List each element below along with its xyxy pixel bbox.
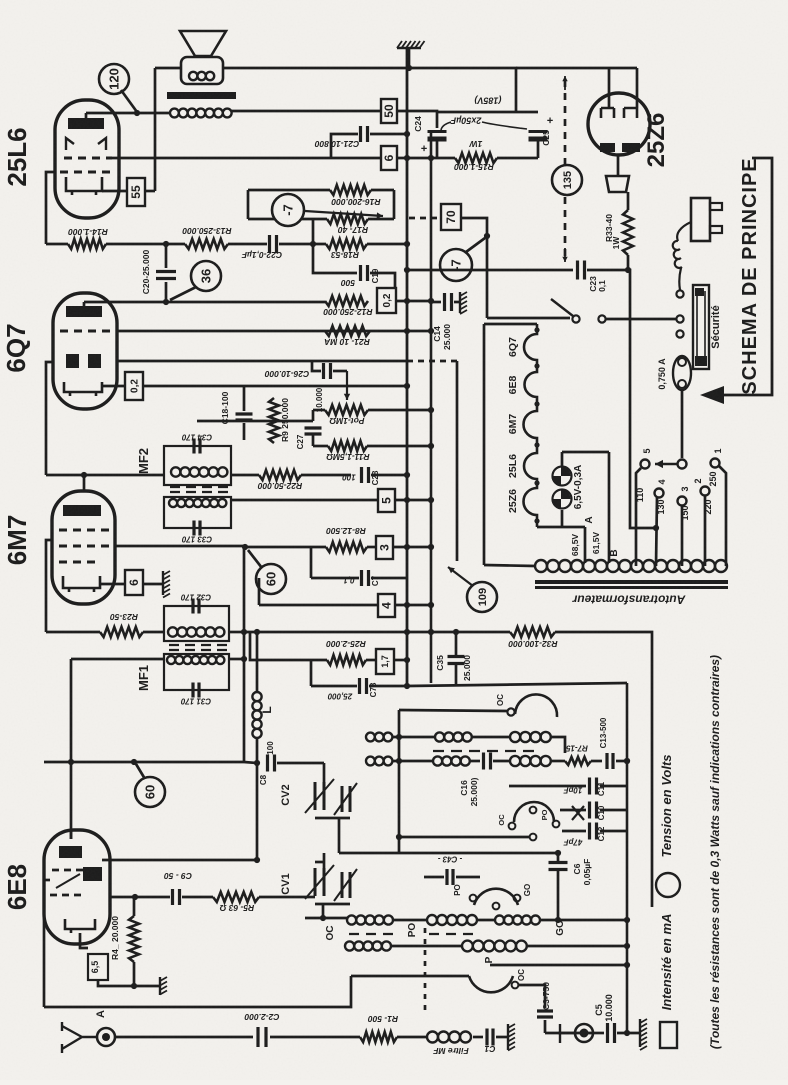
wire top rail right [516, 67, 637, 70]
resistor R21-10MA [325, 326, 370, 336]
tube 6M7 grid dashes a [59, 529, 109, 532]
svg-text:R13-250.000: R13-250.000 [182, 226, 231, 236]
svg-text:C25: C25 [541, 130, 551, 146]
ground (6E8 cathode) [160, 977, 167, 995]
wire speaker rail left [155, 67, 181, 70]
wire C78 branch [310, 660, 313, 686]
wire output return vertical [154, 68, 157, 191]
band switch arc (lower) [469, 976, 513, 992]
resistor R11-1.5MA [328, 441, 367, 451]
resistor R7-15 [565, 757, 591, 765]
wire C35 bottom [455, 663, 458, 684]
tap 150 contact [678, 497, 687, 506]
tap 220 contact [701, 487, 710, 496]
wire detector B line [244, 631, 510, 634]
junction [625, 267, 631, 273]
mains plug prong 2 [710, 226, 722, 233]
svg-text:C8: C8 [259, 774, 268, 785]
wire to R14 [46, 243, 68, 246]
svg-text:C22-0,1µF: C22-0,1µF [241, 250, 282, 260]
svg-text:6M7: 6M7 [507, 414, 519, 435]
junction [428, 407, 434, 413]
wire 6E8 top cap [70, 830, 73, 839]
switch contact OC low [512, 982, 519, 989]
junction [404, 544, 410, 550]
osc contact grid [530, 834, 537, 841]
current callout 4 [378, 594, 395, 617]
svg-text:2x50µF: 2x50µF [450, 116, 482, 126]
wire to C9 [135, 896, 170, 899]
wire 6Q7 cathode out [102, 385, 125, 388]
svg-text:Autotransformateur: Autotransformateur [571, 593, 686, 607]
wire C14 to gnd [454, 301, 460, 304]
MF2 secondary box [164, 497, 231, 528]
current callout 50 [381, 99, 397, 123]
switch contact GO [514, 895, 521, 902]
ant PO core dashes [429, 933, 473, 935]
svg-text:R4_ 20.000: R4_ 20.000 [110, 916, 120, 960]
junction [404, 683, 410, 689]
legend circle (volts) [656, 873, 680, 897]
wire base to R33 [627, 192, 630, 210]
pointer C26 to pot wiper [344, 371, 350, 400]
tube 6Q7 diode plates [66, 354, 79, 368]
wire CV1 left [309, 896, 315, 899]
resistor R32-100.000 [510, 627, 555, 637]
svg-text:25L6: 25L6 [2, 127, 32, 186]
osc coil b1 [433, 756, 470, 765]
current callout 6 [381, 146, 397, 170]
capacitor C9-50 [173, 889, 180, 905]
wire R33 down [627, 255, 630, 270]
capacitor C16-25.000 [484, 753, 491, 770]
svg-text:110: 110 [635, 488, 645, 503]
wire 6Q7 anode line [84, 301, 325, 304]
wire 25L6 anode lead [85, 113, 88, 118]
tube 25Z6 envelope [588, 93, 650, 155]
wire to C24 [397, 111, 437, 128]
wire R23 to MF1 [143, 631, 164, 634]
wire to R23 [46, 631, 100, 634]
tube 6E8 grid dashes b [50, 894, 81, 897]
svg-text:1W: 1W [469, 139, 483, 149]
wire C9 to R5 [182, 896, 213, 899]
osc padder arc [514, 802, 554, 822]
svg-text:0,1: 0,1 [597, 280, 607, 292]
wire osc grid line [339, 852, 558, 855]
junction [624, 758, 630, 764]
wire CV2 to gang bus [338, 818, 341, 853]
wire C11 to return [600, 785, 627, 788]
svg-text:R5- 63 Ω: R5- 63 Ω [219, 903, 254, 913]
wire MF2 secondary to callout 5 [231, 499, 378, 502]
wire MF1 primary right [229, 631, 244, 634]
svg-text:B: B [609, 549, 620, 556]
wire R17 right [368, 218, 394, 221]
wire to ground [143, 583, 163, 586]
svg-text:0,1: 0,1 [343, 575, 355, 584]
junction [428, 602, 434, 608]
wire cathode to 6.5 [80, 933, 88, 948]
svg-text:PO: PO [453, 884, 462, 896]
wire C5 to return [617, 1032, 640, 1035]
junction [404, 472, 410, 478]
svg-text:GO: GO [523, 884, 532, 896]
tube 25L6 beam plates [66, 138, 106, 150]
arrowhead 135 bottom [562, 248, 567, 262]
svg-text:C16: C16 [459, 780, 469, 796]
svg-text:68,5V: 68,5V [570, 534, 580, 557]
current callout 6.5 box [88, 954, 108, 980]
wire R22 to C28 [301, 474, 351, 477]
tube 25L6 envelope [55, 100, 119, 218]
voltage callout 36 [191, 261, 221, 291]
svg-text:C13-500: C13-500 [599, 717, 608, 748]
wire shunt to autotransformer [484, 565, 535, 566]
junction [404, 298, 410, 304]
capacitor C19-500 [361, 265, 368, 281]
wire lamps top [561, 452, 564, 466]
MF1 primary box [164, 606, 229, 641]
legend box (mA) [660, 1022, 677, 1048]
wire OC b to P [391, 945, 462, 948]
junction [404, 497, 410, 503]
svg-text:25,000: 25,000 [327, 691, 353, 700]
junction [254, 857, 260, 863]
tube 25Z6 anode a [601, 108, 614, 118]
current callout 70 [441, 204, 461, 230]
svg-text:25.000: 25.000 [442, 324, 452, 350]
junction [534, 327, 539, 332]
svg-text:R1- 500: R1- 500 [368, 1014, 399, 1024]
wire 25Z6 anode lead a [608, 68, 611, 108]
wire switch shaft dashed [424, 928, 427, 1015]
svg-text:R7-15: R7-15 [566, 743, 588, 752]
junction [131, 983, 137, 989]
wire callout 60a pointer [248, 550, 262, 568]
capacitor C5-10.000 [608, 1023, 615, 1043]
wire heater top [484, 323, 537, 326]
svg-text:R11-1,5MΩ: R11-1,5MΩ [326, 452, 370, 462]
MF2 primary box [164, 446, 231, 485]
capacitor C14-25.000 [445, 293, 452, 311]
mains switch [551, 299, 606, 323]
svg-text:5: 5 [380, 497, 394, 504]
capacitor C34-170 [194, 439, 200, 454]
svg-text:R22-50.000: R22-50.000 [258, 481, 303, 491]
ground (chassis, top) [397, 41, 425, 48]
heater chain bumps [524, 324, 538, 527]
capacitor C33-170 [194, 521, 200, 536]
svg-text:1W: 1W [611, 236, 621, 250]
wire C11 row [509, 785, 586, 788]
junction [428, 298, 434, 304]
capacitor C43 [447, 869, 453, 885]
wire lamp loop top [562, 451, 609, 454]
wire R11 left [313, 445, 328, 448]
antenna coil PO [427, 915, 477, 925]
junction [241, 629, 247, 635]
capacitor C8-100 [268, 755, 275, 772]
tube 25Z6 base [606, 176, 629, 192]
svg-text:OC: OC [497, 814, 506, 826]
wire 6Q7 diode line [117, 360, 407, 363]
junction [624, 943, 630, 949]
resistor R16-200.000 [330, 185, 371, 195]
capacitor C31-170 [193, 683, 199, 698]
voltage callout 135 [552, 165, 582, 195]
wire C6 out [557, 870, 560, 920]
svg-text:R18-53: R18-53 [331, 250, 359, 260]
wire osc row1 [392, 736, 435, 739]
svg-text:0,05µF: 0,05µF [582, 859, 592, 886]
svg-text:47pF: 47pF [563, 837, 584, 846]
junction [404, 629, 410, 635]
wire C16 out [493, 760, 510, 763]
wire R25 to box [366, 659, 376, 662]
capacitor C32-170 [193, 599, 199, 614]
wire CV1 to ant coils [322, 904, 325, 918]
resistor R4-20.000 [129, 916, 139, 962]
wire to tap A [562, 526, 585, 529]
junction [428, 443, 434, 449]
svg-text:0,2: 0,2 [130, 379, 141, 393]
wire lamps bottom [561, 510, 564, 527]
wire 6M7 grid to AVC [115, 545, 244, 548]
svg-text:36: 36 [199, 269, 214, 283]
tube 6M7 anode plate [63, 505, 101, 516]
mains plug body [691, 198, 710, 241]
current callout 0.2 (a) [377, 288, 396, 313]
capacitor C28-100 [362, 467, 369, 483]
svg-text:P: P [484, 956, 495, 963]
wire to R8 [245, 546, 326, 549]
tube 6Q7 anode plate [66, 306, 102, 317]
junction [484, 233, 490, 239]
svg-text:C78: C78 [369, 682, 378, 697]
wire screen rail [397, 157, 455, 160]
tube 25Z6 cathode a [600, 143, 615, 152]
capacitor C18-100 [236, 414, 253, 420]
plug contact c [676, 290, 683, 297]
wire C26 lead [333, 370, 347, 373]
capacitor C1 [487, 1029, 493, 1046]
tube 6E8 plate 1 [59, 846, 82, 858]
wire C10 right [600, 809, 627, 812]
capacitor C35-25.000 [448, 657, 465, 664]
resistor R9-250.000 [269, 398, 279, 443]
wire osc return [490, 964, 628, 967]
tube 25L6 grid 1 dashes [60, 171, 110, 174]
wire callout 70 to switch line [461, 218, 487, 318]
wire to C7 [311, 577, 359, 580]
svg-text:25.000: 25.000 [462, 655, 472, 681]
svg-text:6Q7: 6Q7 [507, 337, 519, 357]
svg-text:C9 - 50: C9 - 50 [164, 871, 192, 881]
wire 6Q7 anode lead [83, 302, 86, 306]
junction [534, 518, 539, 523]
junction [453, 629, 459, 635]
junction [555, 850, 561, 856]
svg-text:R8-12.500: R8-12.500 [326, 526, 366, 536]
junction [624, 1030, 630, 1036]
wire C3 down [544, 1020, 547, 1033]
junction [242, 544, 248, 550]
svg-text:C26-10.000: C26-10.000 [265, 369, 310, 379]
svg-text:C24: C24 [413, 116, 423, 132]
svg-text:MF1: MF1 [136, 665, 151, 691]
wire osc left vertical [398, 710, 401, 853]
wire callout 36 pointer [170, 287, 196, 300]
wire 185V rail [437, 111, 538, 114]
wire to C16 [469, 760, 480, 763]
wire R15 to C25 [497, 157, 538, 160]
tube 6M7 grid dashes c [59, 561, 95, 564]
svg-text:6E8: 6E8 [2, 864, 32, 910]
wire C43 left [424, 876, 444, 879]
wire C18 top [243, 386, 246, 411]
svg-text:CV1: CV1 [280, 873, 292, 894]
svg-text:C19: C19 [371, 268, 380, 283]
voltage callout 120 [99, 64, 129, 94]
wire top rail to HT [222, 68, 516, 112]
wire C27 bottom [312, 434, 315, 446]
wire CV1 top stem [323, 853, 326, 868]
svg-text:PO: PO [407, 923, 418, 938]
junction [428, 544, 434, 550]
svg-text:R23-50: R23-50 [110, 612, 138, 622]
tube 6E8 grid dashes a [52, 869, 83, 872]
svg-text:A: A [584, 516, 595, 523]
svg-text:C28: C28 [371, 470, 380, 485]
svg-text:120: 120 [107, 68, 122, 90]
junction [131, 759, 137, 765]
wire to R7 [551, 760, 565, 763]
junction [624, 962, 630, 968]
wire to mains switch [487, 317, 570, 320]
junction [396, 758, 402, 764]
pointer -7 to R17 [305, 211, 383, 219]
wire CV2 bottom [315, 817, 350, 820]
svg-text:C34 170: C34 170 [181, 432, 212, 441]
svg-text:C20-25.000: C20-25.000 [141, 250, 151, 295]
junction [624, 758, 630, 764]
wire ground stem [408, 48, 411, 68]
wire 6M7 cathode out [100, 583, 125, 586]
junction [163, 241, 169, 247]
antenna coil OC a [347, 915, 393, 924]
title arrowhead [700, 386, 724, 404]
junction [310, 241, 316, 247]
junction [404, 131, 410, 137]
osc contact b [553, 821, 560, 828]
resistor R22-50.000 [259, 470, 301, 480]
wire -7b pointer [466, 238, 485, 252]
wire AVC join [244, 762, 257, 763]
wire callout 60b pointer [136, 764, 145, 779]
wire R16 left [248, 189, 330, 192]
wire earth to C5 [593, 1032, 604, 1035]
junction [404, 241, 410, 247]
wire 6E8 grid left [44, 879, 50, 882]
MF2 secondary coil [169, 499, 226, 507]
junction [555, 917, 561, 923]
svg-text:1: 1 [713, 448, 723, 453]
wire C28 to bus [371, 474, 407, 477]
fuse Securite body [693, 285, 709, 369]
svg-text:-7: -7 [281, 204, 296, 216]
junction [396, 834, 402, 840]
junction [396, 734, 402, 740]
wire R14 to R13 [106, 243, 185, 246]
svg-text:R12-250.000: R12-250.000 [323, 307, 372, 317]
wire callout4 to bus [395, 604, 431, 607]
tube 6Q7 grid dashes [60, 330, 110, 333]
tube 25L6 grid 2 dashes [64, 157, 112, 160]
junction [404, 383, 410, 389]
svg-text:C12: C12 [597, 826, 606, 841]
wire AVC return bottom [44, 976, 351, 1007]
svg-text:OC: OC [517, 969, 526, 981]
current callout 0.2 (b) [125, 372, 143, 400]
wire switch to plug [606, 318, 676, 321]
svg-text:6: 6 [127, 579, 141, 586]
voltage callout 60 (b) [135, 777, 165, 807]
band switch arc (antenna) [474, 889, 518, 905]
capacitor C7-0.1 [362, 570, 369, 586]
pilot lamp 1 [552, 467, 572, 486]
output transformer core [167, 92, 236, 99]
svg-text:(185V): (185V) [474, 96, 501, 106]
wire 25L6 cathode [102, 190, 127, 193]
resistor R5-63 [213, 892, 259, 902]
wire CV2 top [323, 763, 326, 782]
wire fuse to wiper [681, 390, 684, 458]
ground (C14) [460, 292, 467, 314]
current callout 55 [127, 178, 145, 206]
junction [404, 602, 410, 608]
wire tap 110 [636, 468, 641, 566]
tube 25Z6 cathode b [622, 143, 640, 152]
junction [428, 629, 434, 635]
tube 6Q7 envelope [53, 293, 117, 409]
svg-text:MF2: MF2 [136, 448, 151, 474]
potentiometer Pot-1MA [325, 405, 368, 415]
svg-text:60: 60 [264, 572, 279, 586]
wire C7 to bus [371, 577, 407, 580]
MF1 primary coil [168, 627, 224, 636]
capacitor C25 2x50uF [529, 130, 548, 133]
wire CV1 bottom [315, 903, 350, 906]
pilot lamp 2 [552, 490, 572, 509]
wire coils feed [305, 917, 347, 920]
wire R11 right [367, 445, 431, 448]
svg-text:25Z6: 25Z6 [507, 489, 519, 513]
wire vertical x457 [456, 361, 459, 561]
svg-text:130: 130 [656, 499, 666, 514]
capacitor C24 2x50uF [428, 130, 447, 133]
wire dashed to callout 70 [409, 217, 441, 220]
svg-text:(Toutes les résistances sont d: (Toutes les résistances sont de 0,3 Watt… [708, 655, 722, 1049]
wire R8 to box3 [367, 546, 376, 549]
voltage callout -7 (a) [272, 194, 304, 226]
junction [132, 894, 138, 900]
inductor Filtre MF [427, 1032, 471, 1043]
wire C21 to bus [370, 133, 407, 136]
wire to MF2 primary [46, 474, 164, 477]
antenna symbol [62, 1022, 97, 1053]
svg-text:109: 109 [477, 588, 489, 606]
